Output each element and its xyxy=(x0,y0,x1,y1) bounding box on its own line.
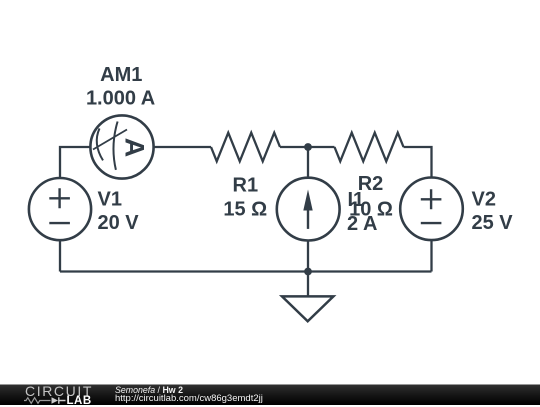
ammeter AM1 xyxy=(90,115,153,178)
wire: R1 right through node to R2 left xyxy=(280,146,335,148)
voltage source V1 xyxy=(29,178,91,240)
wire: bottom rail xyxy=(60,270,432,272)
svg-text:25 V: 25 V xyxy=(472,212,514,234)
current source I1 arrowhead xyxy=(303,190,312,211)
svg-text:R1: R1 xyxy=(233,174,259,196)
svg-text:V2: V2 xyxy=(472,189,496,211)
wire: ammeter right to R1 left xyxy=(154,146,211,148)
wire: V1 top to ammeter left xyxy=(60,147,90,178)
svg-text:1.000 A: 1.000 A xyxy=(86,88,155,110)
wire: I1 bottom to bottom rail xyxy=(307,240,309,272)
svg-text:A: A xyxy=(120,138,150,158)
svg-text:2 A: 2 A xyxy=(347,213,377,235)
wire: V1 bottom to bottom rail xyxy=(59,240,61,272)
footer url line xyxy=(115,394,263,405)
CircuitLab logo resistor-diode glyph xyxy=(24,396,69,405)
resistor R2 xyxy=(335,133,404,162)
ground xyxy=(282,296,333,321)
CircuitLab logo wordmark LAB xyxy=(67,396,92,407)
node: junction dot bottom (rail/I1/ground) xyxy=(304,268,312,276)
wire: node to I1 top xyxy=(307,147,309,178)
svg-text:15 Ω: 15 Ω xyxy=(223,198,267,220)
node: junction dot top (R1/R2/I1) xyxy=(304,143,312,151)
svg-text:AM1: AM1 xyxy=(100,64,142,86)
current source I1 xyxy=(277,178,340,241)
footer attribution line xyxy=(115,385,183,396)
wire: V2 bottom to bottom rail xyxy=(430,240,432,272)
voltage source V2 xyxy=(400,178,463,241)
wire: R2 right to V2 top xyxy=(404,147,432,178)
resistor R1 xyxy=(211,133,280,162)
wire: ground stem xyxy=(307,272,309,297)
svg-text:V1: V1 xyxy=(98,189,122,211)
svg-text:20 V: 20 V xyxy=(98,212,140,234)
svg-text:I1: I1 xyxy=(348,189,365,211)
CircuitLab logo wordmark CIRCUIT xyxy=(25,384,93,398)
